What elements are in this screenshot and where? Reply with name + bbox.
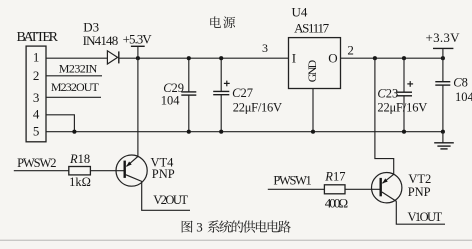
node M232IN wire pin2	[46, 75, 102, 77]
svg-text:C8: C8	[453, 76, 468, 90]
capacitor C27 22uF/16V	[220, 58, 222, 91]
svg-text:+3.3V: +3.3V	[426, 30, 461, 45]
wire pin5 ground rail	[46, 131, 443, 133]
wire PWSW1 to R17	[268, 188, 325, 190]
wire VT2 collector to V1OUT	[396, 201, 445, 224]
svg-text:V1OUT: V1OUT	[408, 210, 443, 224]
svg-text:PNP: PNP	[152, 167, 175, 181]
wire VT2 emitter feed	[375, 58, 394, 174]
svg-text:1: 1	[33, 50, 40, 65]
svg-text:BATTER: BATTER	[17, 30, 59, 45]
node M232OUT wire pin3	[46, 96, 101, 98]
wire diode to U4 input	[119, 57, 289, 59]
wire pin4	[46, 115, 74, 132]
wire VT4 emitter drop	[137, 58, 139, 156]
resistor R17 400	[324, 185, 345, 194]
wire R17 to VT2 base	[345, 188, 380, 190]
resistor R18 1k	[69, 167, 91, 175]
wire PWSW2 to R18	[14, 170, 69, 172]
polarity plus C23	[407, 83, 413, 85]
power +5.3V	[131, 45, 145, 47]
svg-text:I: I	[292, 51, 296, 66]
svg-text:5: 5	[33, 123, 40, 138]
wire pin1 to diode	[46, 57, 107, 59]
svg-text:22μF/16V: 22μF/16V	[377, 100, 427, 114]
scan artifact line	[0, 240, 472, 241]
wire VT4 collector to V2OUT	[142, 181, 190, 210]
svg-text:R17: R17	[324, 170, 345, 184]
svg-text:PWSW2: PWSW2	[17, 156, 56, 170]
svg-text:2: 2	[347, 43, 354, 58]
wire U4 GND to rail	[312, 89, 314, 132]
svg-text:C27: C27	[232, 86, 253, 100]
wire U4 output rail	[341, 57, 443, 59]
regulator U4 AS1117	[289, 38, 341, 89]
svg-text:O: O	[328, 51, 337, 66]
svg-text:22μF/16V: 22μF/16V	[233, 100, 282, 114]
junction pin4/pin5	[72, 130, 76, 134]
svg-text:3: 3	[33, 90, 40, 105]
svg-text:M232OUT: M232OUT	[51, 80, 100, 94]
polarity plus C27	[224, 82, 230, 84]
connector J1 BATTER	[26, 46, 46, 142]
capacitor C23 22uF/16V	[403, 58, 405, 92]
svg-text:3: 3	[262, 41, 268, 55]
net label 电源	[210, 16, 221, 27]
transistor VT2 PNP	[372, 173, 402, 203]
ground	[442, 132, 444, 143]
diode D3 1N4148	[107, 51, 117, 64]
svg-text:GND: GND	[305, 59, 319, 82]
svg-text:400Ω: 400Ω	[325, 195, 349, 210]
svg-text:3: 3	[196, 220, 203, 235]
svg-text:PNP: PNP	[408, 185, 431, 199]
svg-text:R18: R18	[69, 152, 90, 166]
capacitor C29 104	[188, 58, 190, 92]
transistor VT4 PNP	[116, 155, 147, 186]
svg-text:IN4148: IN4148	[83, 33, 119, 48]
svg-text:104: 104	[455, 90, 472, 104]
svg-text:C23: C23	[377, 87, 398, 101]
svg-text:V2OUT: V2OUT	[153, 193, 188, 207]
capacitor C8 104	[442, 58, 444, 81]
svg-text:M232IN: M232IN	[59, 62, 98, 76]
junction +5.3V node	[136, 56, 140, 60]
svg-text:104: 104	[161, 94, 181, 108]
power +3.3V	[433, 47, 453, 49]
svg-text:AS1117: AS1117	[294, 20, 330, 35]
caption 图3 系统的供电电路	[182, 221, 193, 233]
svg-text:+5.3V: +5.3V	[123, 32, 153, 47]
svg-text:VT2: VT2	[408, 172, 431, 186]
svg-text:PWSW1: PWSW1	[273, 174, 311, 188]
svg-text:4: 4	[33, 106, 40, 121]
svg-text:U4: U4	[292, 5, 308, 20]
svg-text:1kΩ: 1kΩ	[69, 175, 91, 189]
svg-text:2: 2	[33, 68, 40, 83]
wire R18 to VT4 base	[90, 170, 124, 172]
svg-text:D3: D3	[83, 19, 99, 34]
